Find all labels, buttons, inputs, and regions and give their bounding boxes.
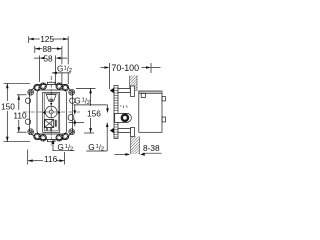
svg-text:156: 156 (87, 108, 101, 118)
svg-text:58: 58 (43, 53, 53, 63)
svg-text:8-38: 8-38 (143, 143, 160, 153)
svg-text:110: 110 (13, 110, 27, 120)
svg-text:70-100: 70-100 (111, 63, 139, 73)
svg-text:116: 116 (44, 154, 58, 164)
svg-text:125: 125 (40, 34, 54, 44)
